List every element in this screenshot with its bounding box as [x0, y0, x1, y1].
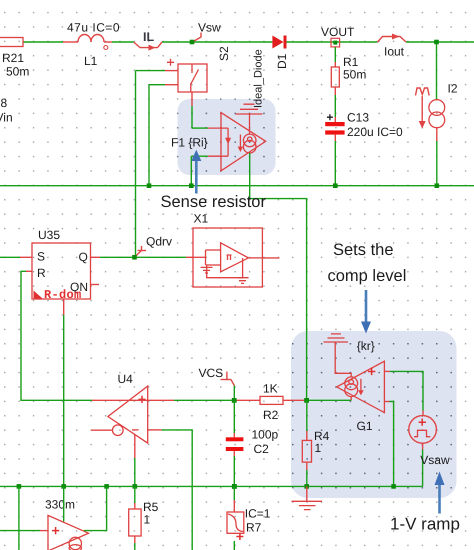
annotation Sets the comp level — [328, 241, 407, 334]
junction bottom rail x=134.8 — [133, 484, 138, 489]
svg-text:1K: 1K — [263, 382, 278, 396]
resistor R2 — [260, 382, 283, 423]
svg-text:Vin: Vin — [0, 111, 13, 125]
svg-text:Iout: Iout — [384, 45, 405, 59]
wire into 330m plus — [0, 530, 48, 532]
junction VCS x=234 — [232, 398, 237, 403]
svg-text:VCS: VCS — [199, 366, 224, 380]
current source I2 — [429, 44, 458, 186]
svg-text:1-V ramp: 1-V ramp — [390, 515, 460, 534]
node VOUT marker — [321, 25, 355, 47]
junction bottom rail x=306.8 — [304, 484, 309, 489]
switch S2 — [167, 46, 231, 92]
junction mid rail x=191 — [189, 183, 194, 188]
svg-text:Sense resistor: Sense resistor — [161, 193, 267, 211]
resistor R21 — [0, 38, 29, 79]
node VCS label — [199, 366, 235, 386]
wire U35 pin line to 330m top — [63, 486, 65, 521]
annotation 1-V ramp — [390, 472, 460, 534]
current marker Iout — [378, 34, 407, 59]
inductor L1 — [67, 21, 120, 69]
svg-text:Vsw: Vsw — [198, 21, 221, 35]
svg-text:220u IC=0: 220u IC=0 — [347, 125, 403, 139]
svg-text:L1: L1 — [84, 54, 98, 68]
wire F1 output down and over to VCS junction — [250, 153, 307, 400]
voltage source Vsaw — [409, 416, 450, 487]
svg-text:R-dom: R-dom — [44, 288, 82, 302]
wire bottom ground rail y=486.4 — [0, 485, 423, 487]
wire U4 bottom pin down to rail — [134, 435, 136, 487]
resistor R4 — [302, 400, 329, 486]
svg-text:330m: 330m — [45, 498, 75, 512]
wire S input — [0, 256, 32, 258]
junction Qdrv — [132, 255, 137, 260]
current waveform marker at I2 — [416, 88, 430, 129]
capacitor C2 — [226, 400, 279, 486]
highlight region around G1 comparator level — [291, 331, 457, 498]
junction mid rail x=149 — [147, 183, 152, 188]
diode D1 — [253, 36, 290, 109]
current marker IL — [134, 30, 162, 51]
node Qdrv label — [135, 235, 173, 258]
svg-text:50m: 50m — [6, 65, 29, 79]
wire G1 output stub — [350, 397, 352, 401]
svg-text:R: R — [37, 266, 46, 280]
svg-text:Sets the: Sets the — [333, 241, 394, 259]
comparator U4 — [108, 372, 148, 443]
wire G1 plus input to Vsaw — [384, 371, 423, 415]
svg-text:Ideal_Diode: Ideal_Diode — [253, 49, 265, 108]
wire Q output to X1 — [91, 256, 194, 258]
svg-text:1: 1 — [144, 513, 151, 527]
svg-text:1: 1 — [315, 441, 322, 455]
svg-text:F1 {Ri}: F1 {Ri} — [171, 136, 208, 150]
junction mid rail x=335 — [333, 183, 338, 188]
svg-text:U4: U4 — [118, 372, 134, 386]
svg-text:Vsaw: Vsaw — [420, 453, 450, 467]
resistor R5 — [129, 486, 159, 550]
wire top rail Vsw/VOUT net y=42 — [23, 41, 474, 43]
wire left vertical below rail x=19 — [18, 486, 20, 550]
svg-text:R2: R2 — [263, 408, 279, 422]
svg-text:47u IC=0: 47u IC=0 — [67, 21, 120, 35]
node Vsw label — [193, 21, 222, 43]
junction VCS x=306.6 — [304, 398, 309, 403]
controlled source G1 — [337, 361, 385, 433]
wire 330m output to rail — [84, 486, 107, 530]
resistor R7 — [227, 486, 271, 550]
svg-text:D1: D1 — [275, 53, 289, 69]
svg-text:X1: X1 — [194, 212, 209, 226]
junction bottom rail x=393.6 — [391, 484, 396, 489]
controlled source F1 — [171, 113, 266, 186]
junction bottom rail x=64 — [61, 484, 66, 489]
svg-text:Q: Q — [79, 250, 88, 264]
ground below rail at x=306.8 — [292, 486, 323, 509]
svg-text:G1: G1 — [357, 419, 373, 433]
svg-text:I2: I2 — [448, 82, 458, 96]
svg-text:100p: 100p — [252, 428, 279, 442]
annotation Sense resistor — [161, 150, 267, 211]
flip-flop U35 — [32, 228, 91, 302]
subcircuit X1 — [193, 212, 262, 288]
svg-text:C13: C13 — [347, 111, 369, 125]
wire U4 minus input to right and down — [91, 430, 192, 550]
junction bottom rail x=234.3 — [232, 484, 237, 489]
wire control vertical to mid rail — [148, 85, 150, 186]
svg-text:{kr}: {kr} — [357, 339, 375, 353]
wire VCS label stub — [233, 386, 235, 401]
wire U35 bottom pin down to bottom rail — [63, 299, 65, 486]
amplifier 330m — [45, 498, 89, 550]
junction mid rail x=436 — [435, 183, 440, 188]
svg-text:Qdrv: Qdrv — [146, 235, 172, 249]
wire control vertical to Qdrv — [135, 71, 137, 258]
svg-text:8: 8 — [1, 96, 8, 110]
wire switch bottom to F1 — [191, 92, 193, 128]
svg-text:S: S — [37, 250, 45, 264]
wire VCS net y=400.3 (U4 + input through R2 to G1) — [92, 399, 351, 401]
capacitor C13 — [325, 111, 403, 186]
stub QN output — [91, 284, 100, 286]
junction bottom rail x=106.6 — [104, 484, 109, 489]
wire G1 minus input down to bottom rail — [384, 402, 393, 487]
svg-text:S2: S2 — [217, 46, 231, 61]
svg-text:R21: R21 — [2, 51, 24, 65]
svg-text:IL: IL — [143, 30, 154, 44]
ground (inverted) above F1 — [236, 104, 263, 134]
wire switch control + — [136, 70, 179, 72]
resistor R1 — [331, 47, 366, 117]
stub X1 output — [262, 257, 279, 259]
wire switch control - — [149, 84, 178, 86]
svg-text:VOUT: VOUT — [321, 25, 355, 39]
svg-text:comp level: comp level — [328, 267, 407, 285]
ground (inverted) above G1 — [324, 334, 375, 377]
junction bottom rail x=19 — [17, 484, 22, 489]
svg-text:IC=1: IC=1 — [245, 507, 271, 521]
svg-text:U35: U35 — [38, 228, 60, 242]
junction at I2 top — [434, 40, 439, 45]
highlight region around F1 sense resistor — [178, 99, 276, 175]
junction at Vsw — [190, 40, 195, 45]
node labels Vin — [0, 96, 13, 125]
svg-text:C2: C2 — [254, 442, 270, 456]
svg-text:50m: 50m — [343, 68, 366, 82]
wire R input down to VCS line — [21, 271, 92, 400]
svg-text:R7: R7 — [246, 521, 262, 535]
wire mid ground rail y=185.7 — [0, 185, 474, 187]
